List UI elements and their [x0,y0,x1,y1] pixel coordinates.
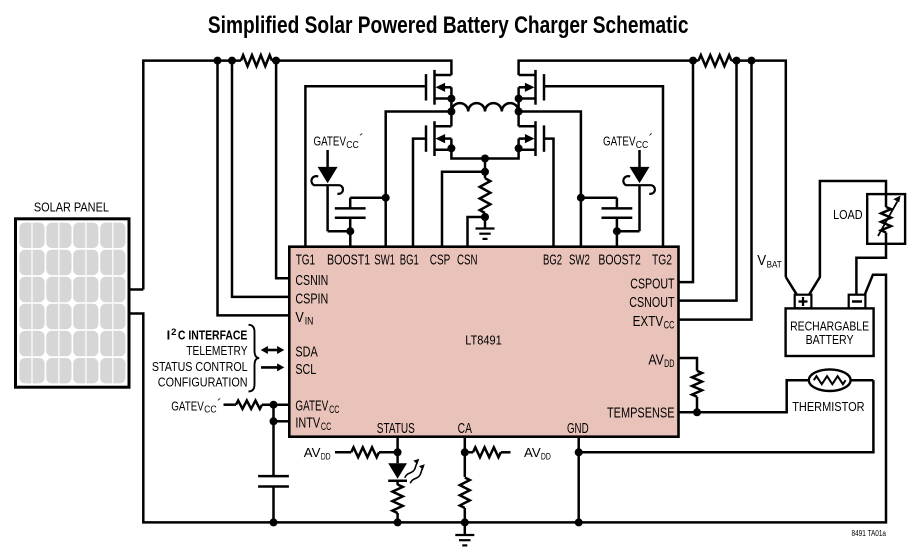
svg-text:DD: DD [541,452,551,462]
svg-text:´: ´ [359,132,364,147]
svg-text:CSP: CSP [430,252,451,269]
svg-text:CC: CC [321,421,331,433]
svg-text:LOAD: LOAD [833,207,863,222]
svg-text:SCL: SCL [295,361,316,378]
svg-text:CSPOUT: CSPOUT [630,276,674,293]
svg-text:CSNOUT: CSNOUT [629,294,674,311]
svg-text:GATEV: GATEV [603,134,636,149]
svg-text:INTV: INTV [295,415,320,432]
svg-text:BOOST1: BOOST1 [327,252,370,269]
svg-text:BOOST2: BOOST2 [598,252,640,269]
svg-text:GATEV: GATEV [314,134,347,149]
svg-text:CSN: CSN [457,252,478,269]
svg-text:CC: CC [329,404,339,416]
svg-text:AV: AV [524,445,541,460]
svg-text:GATEV: GATEV [295,398,328,415]
svg-text:CC: CC [346,140,359,151]
svg-text:SW2: SW2 [569,252,590,269]
svg-text:BG1: BG1 [400,252,419,269]
svg-text:LT8491: LT8491 [465,333,502,348]
svg-text:2: 2 [171,327,176,338]
svg-text:THERMISTOR: THERMISTOR [792,399,864,414]
svg-text:STATUS CONTROL: STATUS CONTROL [152,359,248,374]
svg-text:BG2: BG2 [543,252,562,269]
svg-text:´: ´ [217,397,222,412]
svg-text:CSNIN: CSNIN [295,272,328,289]
svg-text:GND: GND [567,420,589,437]
svg-text:CC: CC [664,320,675,332]
svg-text:STATUS: STATUS [377,420,415,437]
svg-text:Simplified Solar Powered Batte: Simplified Solar Powered Battery Charger… [208,12,689,39]
svg-text:TG2: TG2 [652,252,672,269]
svg-text:TEMPSENSE: TEMPSENSE [607,405,675,422]
svg-text:TELEMETRY: TELEMETRY [186,343,248,358]
svg-text:BATTERY: BATTERY [806,332,854,347]
svg-text:CONFIGURATION: CONFIGURATION [158,375,248,390]
svg-text:SOLAR PANEL: SOLAR PANEL [34,200,109,215]
svg-text:8491 TA01a: 8491 TA01a [852,529,887,538]
svg-text:EXTV: EXTV [633,313,664,330]
svg-text:AV: AV [304,445,321,460]
svg-text:BAT: BAT [767,259,782,270]
svg-text:AV: AV [648,351,664,368]
svg-text:CC: CC [204,405,217,416]
svg-text:DD: DD [664,358,674,370]
svg-text:SDA: SDA [295,344,318,361]
svg-text:CSPIN: CSPIN [295,291,328,308]
svg-text:V: V [757,253,766,269]
svg-text:IN: IN [305,316,314,328]
svg-text:C INTERFACE: C INTERFACE [178,328,248,343]
svg-text:SW1: SW1 [374,252,395,269]
svg-text:TG1: TG1 [296,252,315,269]
svg-text:CC: CC [636,140,649,151]
svg-text:CA: CA [458,420,473,437]
svg-text:´: ´ [649,132,654,147]
svg-text:V: V [295,309,304,326]
svg-text:I: I [167,328,171,343]
svg-text:GATEV: GATEV [171,398,204,413]
svg-text:DD: DD [321,452,331,462]
